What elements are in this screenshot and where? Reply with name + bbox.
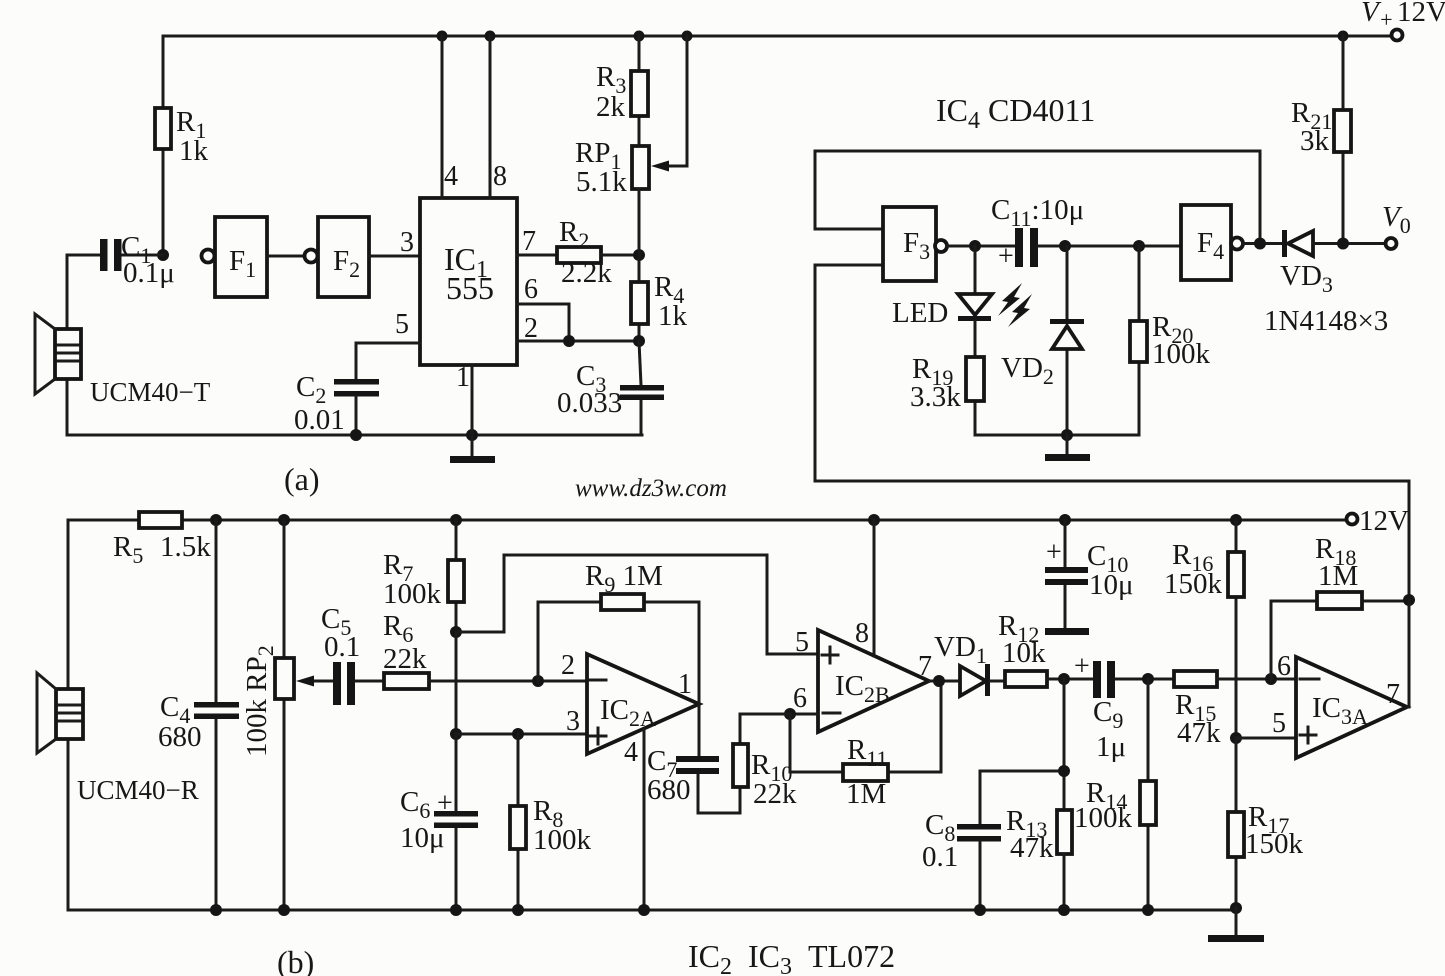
svg-text:V+: V+: [1361, 0, 1394, 32]
svg-text:5: 5: [1272, 708, 1286, 739]
svg-text:R6: R6: [383, 610, 413, 647]
node: rail junction RP1 wiper: [682, 31, 693, 42]
svg-text:1M: 1M: [1318, 560, 1358, 592]
resistor R2 2.2k: [557, 216, 639, 289]
diode VD3 1N4148: [1264, 230, 1388, 337]
node: pin2/R4/C3 junction: [633, 335, 645, 347]
svg-text:C9: C9: [1093, 696, 1123, 733]
gate F3: [883, 207, 947, 281]
node: pin6/pin2 junction: [563, 335, 575, 347]
svg-text:7: 7: [918, 651, 932, 682]
resistor R9 1M feedback: [538, 560, 699, 704]
svg-text:0.033: 0.033: [557, 387, 622, 419]
node: C11/VD2 junction: [1059, 240, 1071, 252]
svg-text:0.1: 0.1: [324, 631, 360, 663]
svg-text:1: 1: [678, 669, 692, 700]
svg-text:IC2 IC3 TL072: IC2 IC3 TL072: [688, 938, 895, 976]
svg-text:1M: 1M: [846, 778, 886, 810]
ground (section b): [1208, 908, 1264, 942]
wire IC1 pin4 to rail: [442, 36, 458, 198]
wire IC1 pin2: [517, 313, 639, 344]
svg-text:IC4 CD4011: IC4 CD4011: [936, 92, 1095, 134]
capacitor C8 0.1: [922, 809, 1001, 910]
wire: left vertical to transducer: [67, 520, 70, 910]
wire IC2A pin4 to ground rail: [643, 729, 646, 910]
node: R20 junction: [1133, 240, 1145, 252]
node: R12/C9/R13 junction: [1058, 673, 1070, 685]
resistor R6 22k: [383, 610, 587, 689]
wire F3 output: [947, 245, 1017, 248]
svg-text:22k: 22k: [753, 778, 797, 810]
svg-text:0.01: 0.01: [294, 404, 345, 436]
potentiometer RP2 100k: [241, 520, 334, 910]
resistor R1: [155, 36, 209, 255]
wire IC2B pin8 to rail: [873, 520, 876, 656]
svg-text:3.3k: 3.3k: [910, 381, 961, 413]
svg-text:1k: 1k: [179, 135, 209, 167]
wire F2 to IC1 pin3: [369, 227, 420, 258]
node: R6/R9 junction (pin2): [532, 675, 544, 687]
svg-text:1μ: 1μ: [1096, 731, 1126, 763]
capacitor C3 0.033: [557, 341, 664, 435]
svg-text:47k: 47k: [1177, 717, 1221, 749]
wire IC2B pin6: [790, 713, 818, 716]
node: RP2 bottom: [278, 904, 290, 916]
svg-text:4: 4: [624, 737, 638, 768]
svg-text:100k: 100k: [383, 578, 442, 610]
svg-text:6: 6: [793, 683, 807, 714]
capacitor C7 680: [647, 704, 740, 813]
wire: R7 node down to pin3 level: [455, 632, 458, 734]
svg-text:5.1k: 5.1k: [576, 166, 627, 198]
op-amp IC2A: [561, 650, 699, 768]
resistor R16 150k: [1164, 520, 1244, 738]
node: rail junction R3: [634, 31, 645, 42]
node: VD3/R21 output junction: [1337, 238, 1349, 250]
ground (IC4 section): [1045, 435, 1090, 461]
diode VD1: [934, 631, 1005, 696]
transducer UCM40-T: [35, 314, 211, 407]
svg-text:8: 8: [493, 161, 507, 192]
resistor R19 3.3k: [910, 321, 984, 435]
node: R14 bottom: [1142, 904, 1154, 916]
svg-text:LED: LED: [892, 297, 948, 329]
ground (section a): [450, 435, 495, 463]
resistor R8 100k: [510, 734, 592, 910]
resistor R15 47k: [1174, 671, 1296, 749]
svg-text:680: 680: [158, 721, 202, 753]
svg-text:3: 3: [566, 706, 580, 737]
op IC1 555 timer box: [420, 198, 517, 365]
svg-text:10μ: 10μ: [1089, 569, 1134, 601]
terminal V0 output: [1382, 201, 1411, 249]
resistor R7 100k: [383, 520, 464, 632]
resistor R17 150k: [1228, 738, 1304, 908]
svg-text:10μ: 10μ: [400, 822, 445, 854]
svg-text:1.5k: 1.5k: [160, 531, 211, 563]
label (b): [277, 944, 314, 976]
node: R8 top junction: [512, 728, 524, 740]
svg-text:(b): (b): [277, 944, 314, 976]
capacitor C2 0.01: [294, 371, 379, 436]
svg-text:(a): (a): [284, 461, 320, 497]
wire IC1 pin5 to C2: [356, 309, 420, 379]
svg-text:VD3: VD3: [1280, 260, 1333, 297]
label IC4 CD4011: [936, 92, 1095, 134]
node: R8 bottom: [512, 904, 524, 916]
resistor R18 1M feedback: [1271, 533, 1409, 679]
node: rail junction RP2: [278, 514, 290, 526]
svg-text:1: 1: [456, 362, 470, 393]
svg-text:+: +: [1046, 537, 1062, 568]
svg-text:R5: R5: [113, 531, 143, 568]
svg-text:150k: 150k: [1245, 828, 1304, 860]
node: C8 bottom: [974, 904, 986, 916]
node: rail junction C4: [210, 514, 222, 526]
svg-text:100k RP2: 100k RP2: [241, 645, 278, 757]
node: C6 bottom: [450, 904, 462, 916]
svg-text:8: 8: [855, 618, 869, 649]
node: C2 on bottom rail: [350, 429, 362, 441]
label (a): [284, 461, 320, 497]
capacitor C10 10u: [1045, 520, 1134, 635]
node: rail junction R7: [450, 514, 462, 526]
node: rail junction R16: [1230, 514, 1242, 526]
resistor R13 47k: [1006, 805, 1072, 910]
svg-text:5: 5: [795, 627, 809, 658]
node: R13 bottom: [1058, 904, 1070, 916]
node: R7 bottom junction: [450, 626, 462, 638]
wire: section (a) bottom return rail: [67, 255, 642, 435]
svg-text:680: 680: [647, 774, 691, 806]
resistor R20 100k: [1130, 246, 1211, 435]
wire: section b top 12V rail: [68, 519, 1346, 522]
wire: section b bottom rail: [68, 909, 1236, 912]
svg-text:10k: 10k: [1002, 637, 1046, 669]
node: IC2B output junction: [933, 675, 945, 687]
svg-text:+: +: [1074, 651, 1090, 682]
svg-text:VD1: VD1: [934, 631, 987, 668]
node A (C1/R1/F1 junction): [157, 249, 169, 261]
LED with radiation arrows: [892, 246, 1032, 329]
wire IC3A output to feedback column: [1407, 600, 1409, 707]
node: rail junction pin4: [437, 31, 448, 42]
wire IC1 pin8 to rail: [490, 36, 507, 198]
resistor R12 10k: [998, 610, 1095, 687]
svg-text:5: 5: [395, 309, 409, 340]
node: R16/R17/pin5 junction: [1230, 732, 1242, 744]
svg-text:C6: C6: [400, 786, 430, 823]
svg-text:UCM40−T: UCM40−T: [90, 377, 211, 407]
op-amp IC3A: [1277, 651, 1407, 758]
node: R2/R3/RP1/R4 junction: [633, 249, 645, 261]
node: R17 bottom ground junction: [1230, 902, 1242, 914]
terminal V+ 12V: [1361, 0, 1445, 41]
node: pin4 bottom: [638, 904, 650, 916]
svg-text:22k: 22k: [383, 643, 427, 675]
svg-text:7: 7: [1386, 679, 1400, 710]
wire: R13/C8 tie to R12 node: [980, 679, 1064, 824]
diode VD2: [1001, 246, 1084, 435]
node: VD2 ground junction: [1061, 429, 1073, 441]
svg-text:100k: 100k: [1152, 338, 1211, 370]
svg-text:6: 6: [524, 274, 538, 305]
gate F2: [305, 217, 370, 297]
label IC2 IC3 TL072: [688, 938, 895, 976]
node: rail junction C10: [1059, 514, 1071, 526]
wire: F3 bottom input loop from IC3A output: [815, 265, 1409, 600]
gate F1: [202, 217, 268, 297]
wire F1 to F2: [267, 255, 304, 258]
svg-text:3k: 3k: [1300, 125, 1330, 157]
node: rail junction R21: [1338, 31, 1349, 42]
watermark www.dz3w.com: [575, 475, 727, 502]
wire IC1 pin1: [456, 362, 472, 435]
capacitor C4 680: [158, 520, 239, 910]
wire IC1 pin6: [517, 274, 569, 341]
svg-text:100k: 100k: [533, 824, 592, 856]
svg-text:6: 6: [1277, 651, 1291, 682]
svg-text:www.dz3w.com: www.dz3w.com: [575, 475, 727, 502]
wire F4 output to VD3: [1243, 242, 1285, 245]
svg-text:C11:10μ: C11:10μ: [991, 194, 1084, 231]
wire IC3A pin5: [1236, 708, 1296, 739]
svg-text:1N4148×3: 1N4148×3: [1264, 305, 1388, 337]
svg-text:4: 4: [444, 161, 458, 192]
node: rail junction pin8: [485, 31, 496, 42]
resistor R10 22k: [733, 714, 797, 813]
wire IC2B output: [929, 680, 960, 683]
node: F3 out / LED junction: [969, 240, 981, 252]
capacitor C9 1u: [1074, 651, 1174, 763]
resistor R3 2k: [596, 36, 648, 146]
node: C9/R14 junction: [1142, 673, 1154, 685]
transducer UCM40-R: [37, 673, 199, 805]
svg-text:100k: 100k: [1074, 802, 1133, 834]
wire: R7 node to IC2B pin5: [456, 555, 818, 654]
capacitor C6 10u: [400, 734, 478, 910]
svg-text:3: 3: [400, 227, 414, 258]
svg-text:C2: C2: [296, 371, 326, 408]
svg-text:12V: 12V: [1359, 505, 1409, 537]
resistor R11 1M feedback: [790, 681, 941, 810]
resistor R14 100k: [1074, 679, 1156, 910]
node: C8/R13 junction: [1058, 765, 1070, 777]
resistor R5 1.5k: [113, 512, 211, 568]
svg-text:2: 2: [561, 650, 575, 681]
capacitor C11 10u: [991, 194, 1181, 272]
wire IC1 pin7 to R2: [517, 226, 557, 257]
svg-text:0.1μ: 0.1μ: [123, 257, 175, 289]
gate F4: [1181, 205, 1243, 280]
svg-text:12V: 12V: [1397, 0, 1445, 28]
node: IC3A pin6 junction: [1265, 673, 1277, 685]
svg-text:R11: R11: [847, 734, 888, 771]
op-amp IC2B: [793, 618, 932, 732]
svg-text:UCM40−R: UCM40−R: [77, 775, 199, 805]
svg-text:V0: V0: [1382, 201, 1411, 238]
potentiometer RP1 5.1k: [575, 36, 687, 255]
svg-text:2k: 2k: [596, 91, 626, 123]
svg-text:+: +: [998, 241, 1014, 272]
capacitor C1 0.1u: [67, 231, 175, 289]
svg-text:R2: R2: [559, 216, 589, 253]
terminal 12V (section b): [1347, 505, 1410, 537]
svg-text:150k: 150k: [1164, 568, 1223, 600]
wire: LED/VD2/R20 bottom tie: [975, 434, 1139, 437]
capacitor C5 0.1: [321, 603, 384, 705]
svg-text:R9 1M: R9 1M: [585, 560, 663, 597]
svg-text:7: 7: [522, 226, 536, 257]
node: C4 bottom: [210, 904, 222, 916]
resistor R21 3k: [1291, 36, 1351, 244]
wire: F3 top input feedback loop: [815, 151, 1260, 244]
svg-text:VD2: VD2: [1001, 352, 1054, 389]
svg-text:0.1: 0.1: [922, 841, 958, 873]
wire: top V+ supply rail: [163, 35, 1391, 38]
wire IC2A pin3: [456, 706, 587, 737]
resistor R4 1k: [631, 255, 688, 341]
node: pin6 junction: [784, 708, 796, 720]
svg-text:47k: 47k: [1010, 832, 1054, 864]
svg-text:1k: 1k: [658, 300, 688, 332]
node: feedback junction at F4 output: [1254, 238, 1266, 250]
svg-text:2: 2: [524, 313, 538, 344]
svg-text:+: +: [437, 788, 453, 819]
node: R18/IC3A output junction: [1403, 594, 1415, 606]
svg-text:2.2k: 2.2k: [561, 257, 612, 289]
node: rail junction IC2B pin8: [868, 514, 880, 526]
node: pin1 ground junction: [466, 429, 478, 441]
svg-text:555: 555: [446, 270, 494, 306]
node: pin3 wire junction at x456: [450, 728, 462, 740]
